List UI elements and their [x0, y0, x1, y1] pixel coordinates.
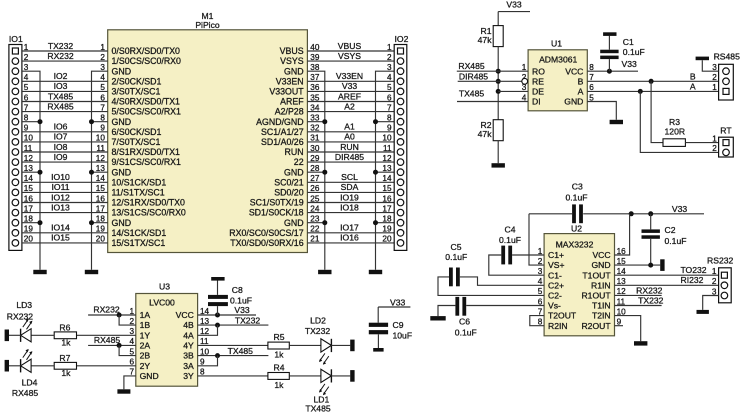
svg-text:DIR485: DIR485 — [335, 152, 364, 162]
svg-text:1k: 1k — [61, 368, 71, 378]
svg-text:GND: GND — [112, 218, 132, 228]
ground (side bar) — [350, 370, 354, 382]
svg-text:47k: 47k — [478, 129, 493, 139]
wire R3 to RT pin1 — [685, 142, 718, 144]
svg-text:IO18: IO18 — [340, 202, 359, 212]
svg-text:SCL: SCL — [341, 172, 358, 182]
svg-text:U1: U1 — [551, 38, 562, 48]
svg-text:IO14: IO14 — [51, 223, 70, 233]
LED LD4 — [9, 349, 39, 398]
svg-text:TX485: TX485 — [305, 403, 331, 413]
svg-text:R2IN: R2IN — [548, 321, 568, 331]
wire net IO7 — [22, 132, 108, 142]
wire net IO12 — [22, 192, 108, 202]
wire net RX232 — [22, 51, 108, 61]
svg-text:VBUS: VBUS — [338, 41, 362, 51]
svg-text:22: 22 — [294, 157, 304, 167]
wire net IO11 — [22, 182, 108, 192]
svg-text:2: 2 — [712, 144, 717, 153]
wire net A2 — [307, 101, 394, 111]
svg-text:VSYS: VSYS — [338, 51, 361, 61]
M1 right pin labels — [229, 46, 304, 248]
M1 left pin labels — [112, 46, 186, 248]
svg-text:13/S1CS/SC0/RX0: 13/S1CS/SC0/RX0 — [112, 208, 186, 218]
svg-text:18: 18 — [382, 215, 392, 224]
IO2 pin numbers — [382, 43, 392, 244]
wire net IO10 — [22, 172, 108, 182]
svg-text:AREF: AREF — [338, 91, 361, 101]
ground — [610, 120, 623, 124]
ground (flipped) — [696, 57, 709, 61]
wire net TO232 — [615, 265, 719, 275]
wire R1 to nets — [497, 47, 499, 120]
wire net IO6 — [22, 122, 108, 132]
svg-text:AGND/GND: AGND/GND — [256, 117, 303, 127]
svg-text:10: 10 — [382, 134, 392, 143]
wire net A — [587, 82, 718, 94]
LED LD3 — [7, 300, 33, 342]
capacitor C4 — [489, 225, 544, 276]
resistor R3 — [663, 117, 685, 147]
svg-text:VSYS: VSYS — [280, 56, 304, 66]
wire R4 to LD1 — [289, 375, 321, 377]
chip U3 LVC00 body — [136, 282, 198, 387]
svg-text:11: 11 — [383, 144, 392, 153]
svg-text:9: 9 — [387, 124, 392, 133]
svg-text:1Y: 1Y — [140, 330, 151, 340]
wire net TX232 — [22, 41, 108, 51]
svg-text:7/S0TX/SC1: 7/S0TX/SC1 — [112, 137, 161, 147]
wire U3 GND to ground — [124, 376, 136, 389]
svg-text:5/S0CS/SC0/RX1: 5/S0CS/SC0/RX1 — [112, 107, 182, 117]
svg-text:C1: C1 — [623, 37, 634, 47]
svg-text:11/S1TX/SC1: 11/S1TX/SC1 — [112, 188, 165, 198]
svg-text:RI232: RI232 — [681, 275, 704, 285]
node DE junction — [496, 89, 501, 94]
svg-text:15/S1TX/SC1: 15/S1TX/SC1 — [112, 238, 166, 248]
svg-text:15: 15 — [382, 184, 392, 193]
wire R2 to ground — [497, 141, 499, 164]
svg-text:RE: RE — [532, 76, 544, 86]
wire net RX485 (U3) — [88, 335, 136, 356]
svg-text:R6: R6 — [59, 323, 70, 333]
resistor R7 — [54, 353, 76, 378]
svg-text:LD2: LD2 — [310, 315, 326, 325]
svg-text:V33: V33 — [342, 81, 358, 91]
svg-text:3A: 3A — [183, 361, 194, 371]
svg-text:2: 2 — [712, 73, 717, 82]
svg-text:RO: RO — [532, 66, 545, 76]
svg-text:TX232: TX232 — [48, 41, 74, 51]
capacitor C9 — [369, 320, 412, 348]
svg-text:TO232: TO232 — [680, 265, 706, 275]
node R1/RO junction — [496, 69, 501, 74]
svg-text:V33: V33 — [390, 297, 406, 307]
svg-text:1A: 1A — [140, 310, 151, 320]
svg-text:0.1uF: 0.1uF — [623, 47, 645, 57]
svg-text:RX232: RX232 — [47, 51, 73, 61]
svg-text:20: 20 — [382, 235, 392, 244]
svg-text:GND: GND — [564, 97, 583, 107]
wire U3 VCC to V33 — [198, 305, 256, 317]
wire net IO19 — [307, 192, 394, 202]
svg-text:RS485: RS485 — [714, 52, 740, 62]
svg-text:10/S1CK/SD1: 10/S1CK/SD1 — [112, 177, 167, 187]
svg-text:C2: C2 — [665, 225, 676, 235]
wire net IO3 — [22, 81, 108, 91]
ground (side bar) — [350, 340, 354, 352]
svg-text:C3: C3 — [572, 182, 583, 192]
M1 right pin numbers — [310, 43, 320, 244]
svg-text:T2IN: T2IN — [592, 311, 611, 321]
svg-text:U2: U2 — [571, 224, 582, 234]
wire net TX232 (U2) — [615, 296, 664, 306]
wire R6 to LD3 — [31, 334, 54, 336]
wire net TX485 (U3) — [198, 346, 269, 366]
svg-text:1: 1 — [712, 267, 717, 276]
svg-text:PiPico: PiPico — [195, 20, 220, 30]
svg-text:12: 12 — [382, 154, 392, 163]
svg-text:R4: R4 — [274, 362, 285, 372]
wire U3 1Y — [77, 334, 136, 336]
svg-text:AREF: AREF — [280, 97, 304, 107]
svg-text:1k: 1k — [61, 338, 71, 348]
svg-text:IO1: IO1 — [9, 34, 23, 44]
wire net TX485 — [457, 89, 528, 102]
svg-text:7: 7 — [387, 103, 392, 112]
power V33 (C9) — [378, 297, 410, 322]
svg-text:RX232: RX232 — [7, 312, 33, 322]
svg-text:LD4: LD4 — [22, 378, 38, 388]
wire net AREF — [307, 91, 394, 101]
svg-text:A: A — [690, 82, 696, 92]
svg-text:SD0/20: SD0/20 — [274, 188, 303, 198]
svg-text:C1+: C1+ — [548, 250, 564, 260]
svg-text:VBUS: VBUS — [280, 46, 304, 56]
wire net RI232 — [615, 275, 719, 285]
svg-text:U3: U3 — [159, 282, 170, 292]
resistor R1 — [478, 26, 504, 47]
connector RT — [719, 126, 734, 157]
svg-text:MAX3232: MAX3232 — [556, 240, 594, 250]
svg-text:R1OUT: R1OUT — [581, 291, 611, 301]
op-amp U1 ADM3061 body — [528, 38, 587, 111]
wire U2 VCC to V33 — [615, 214, 630, 255]
svg-text:RX232: RX232 — [636, 286, 662, 296]
svg-text:IO9: IO9 — [54, 152, 68, 162]
svg-text:TX0/SD0/S0RX/16: TX0/SD0/S0RX/16 — [230, 238, 303, 248]
svg-text:Vs-: Vs- — [548, 301, 561, 311]
svg-text:2Y: 2Y — [140, 361, 151, 371]
connector RS232 — [707, 256, 733, 303]
ground — [697, 310, 709, 314]
RS485 pin3 wire to ground — [702, 60, 718, 71]
wire net IO9 — [22, 152, 108, 162]
ground rail M1 GND pins 3/8/13/18 — [89, 71, 108, 270]
svg-text:LD3: LD3 — [16, 300, 32, 310]
svg-text:RT: RT — [720, 126, 732, 136]
svg-text:A1: A1 — [344, 122, 355, 132]
wire net IO16 — [307, 233, 394, 243]
svg-text:120R: 120R — [665, 126, 686, 136]
svg-text:14/S1CK/SD1: 14/S1CK/SD1 — [112, 228, 167, 238]
svg-text:GND: GND — [112, 117, 132, 127]
svg-text:IO7: IO7 — [54, 132, 68, 142]
ground — [373, 348, 383, 352]
svg-text:IO15: IO15 — [51, 233, 70, 243]
svg-text:4/S0RX/SD0/TX1: 4/S0RX/SD0/TX1 — [112, 97, 181, 107]
svg-text:RUN: RUN — [340, 142, 359, 152]
wire VCC to V33 — [587, 69, 638, 74]
svg-text:RX485: RX485 — [458, 61, 484, 71]
svg-text:SDA: SDA — [341, 182, 359, 192]
wire B to R3 — [651, 81, 663, 142]
svg-text:1k: 1k — [274, 380, 284, 390]
svg-text:GND: GND — [112, 66, 132, 76]
wire net IO15 — [22, 233, 108, 243]
svg-text:V33EN: V33EN — [276, 76, 304, 86]
svg-text:3Y: 3Y — [183, 371, 194, 381]
wire net SDA — [307, 182, 394, 192]
svg-text:RS232: RS232 — [707, 256, 733, 266]
svg-text:B: B — [690, 72, 696, 82]
wire R5 to LD2 — [289, 344, 321, 346]
svg-text:TX485: TX485 — [228, 346, 254, 356]
svg-text:0.1uF: 0.1uF — [445, 252, 467, 262]
IO1 pin numbers — [24, 43, 34, 244]
wire net A1 — [307, 122, 394, 132]
svg-text:3/S0TX/SC1: 3/S0TX/SC1 — [112, 87, 161, 97]
svg-text:4A: 4A — [183, 330, 194, 340]
ground (flipped, above C8) — [211, 277, 224, 281]
svg-text:R5: R5 — [274, 332, 285, 342]
resistor R6 — [54, 323, 76, 348]
wire net TX485 — [22, 91, 108, 101]
wire U3 2Y — [77, 365, 136, 367]
svg-text:SC1/A1/27: SC1/A1/27 — [261, 127, 304, 137]
svg-text:3B: 3B — [183, 351, 194, 361]
svg-text:B: B — [578, 76, 584, 86]
svg-text:1: 1 — [712, 83, 717, 92]
svg-text:0.1uF: 0.1uF — [499, 235, 521, 245]
svg-text:2B: 2B — [140, 351, 151, 361]
connector IO1 — [9, 34, 23, 250]
svg-text:C2+: C2+ — [548, 280, 564, 290]
svg-text:2/S0CK/SD1: 2/S0CK/SD1 — [112, 76, 162, 86]
ground — [117, 389, 130, 393]
svg-text:8: 8 — [387, 114, 392, 123]
svg-text:IO11: IO11 — [52, 182, 70, 192]
svg-text:T1IN: T1IN — [592, 301, 611, 311]
wire net RX232 (U3) — [88, 305, 136, 326]
svg-text:VS+: VS+ — [548, 260, 564, 270]
svg-text:GND: GND — [140, 371, 159, 381]
ground (flipped, above C1) — [603, 32, 616, 36]
capacitor C2 — [642, 214, 687, 265]
svg-text:IO19: IO19 — [340, 192, 359, 202]
wire net IO2 — [22, 71, 108, 81]
wire net B — [587, 72, 718, 84]
svg-text:RX0/SC0/S0CS/17: RX0/SC0/S0CS/17 — [229, 228, 303, 238]
ground — [85, 270, 98, 274]
svg-text:19: 19 — [382, 225, 392, 234]
svg-text:DI: DI — [532, 97, 541, 107]
chip M1 PiPico — [108, 11, 308, 253]
ground — [369, 270, 382, 274]
wire U2 GND — [615, 263, 661, 268]
svg-text:IO16: IO16 — [340, 233, 359, 243]
wire U2 pins 7-8 tie — [530, 316, 544, 326]
wire U2 R2OUT stub — [615, 325, 624, 327]
svg-text:IO13: IO13 — [51, 202, 70, 212]
svg-text:VCC: VCC — [176, 310, 194, 320]
svg-text:T1OUT: T1OUT — [582, 270, 611, 280]
wire net V33EN — [307, 71, 394, 81]
svg-text:IO3: IO3 — [54, 81, 68, 91]
ground rail M1 GND pins 38/33/28/23 — [307, 71, 327, 270]
svg-text:1k: 1k — [274, 350, 284, 360]
wire net RX485 — [22, 101, 108, 111]
LED LD2 — [305, 315, 350, 364]
svg-text:C8: C8 — [232, 285, 243, 295]
svg-text:0.1uF: 0.1uF — [665, 236, 687, 246]
M1 left pin numbers — [96, 43, 106, 244]
svg-text:TX232: TX232 — [235, 315, 261, 325]
wire DE — [498, 90, 528, 92]
svg-text:IO17: IO17 — [340, 223, 359, 233]
svg-text:16: 16 — [382, 194, 392, 203]
svg-text:A: A — [578, 87, 584, 97]
svg-text:0.1uF: 0.1uF — [230, 296, 252, 306]
svg-text:V33: V33 — [234, 305, 250, 315]
wire U3 4Y — [198, 344, 268, 346]
capacitor C8 — [208, 281, 252, 316]
svg-text:4Y: 4Y — [183, 341, 194, 351]
connector RS485 — [714, 52, 740, 100]
svg-text:GND: GND — [284, 167, 304, 177]
svg-text:GND: GND — [284, 66, 304, 76]
svg-text:9/S1CS/SC0/RX1: 9/S1CS/SC0/RX1 — [112, 157, 182, 167]
wire net V33 (U2) — [583, 204, 704, 216]
svg-text:14: 14 — [382, 174, 392, 183]
svg-text:IO2: IO2 — [395, 34, 409, 44]
svg-text:RX485: RX485 — [12, 388, 38, 398]
svg-text:RUN: RUN — [285, 147, 304, 157]
svg-text:VCC: VCC — [565, 66, 583, 76]
svg-text:1/S0CS/SC0/RX0: 1/S0CS/SC0/RX0 — [112, 56, 182, 66]
capacitor C6 — [438, 297, 544, 338]
ground — [634, 341, 647, 345]
svg-text:R2OUT: R2OUT — [581, 321, 611, 331]
wire net IO18 — [307, 202, 394, 212]
wire net A0 — [307, 132, 394, 142]
svg-text:1: 1 — [712, 134, 717, 143]
wire A to RT pin2 — [640, 91, 718, 152]
svg-text:R1IN: R1IN — [591, 280, 611, 290]
svg-text:TX485: TX485 — [459, 89, 485, 99]
capacitor C1 — [600, 36, 645, 71]
wire net TX232 (U3) — [198, 315, 269, 335]
power V33 (R1 top) — [498, 0, 530, 26]
svg-text:C5: C5 — [451, 242, 462, 252]
svg-text:8/S1RX/SD0/TX1: 8/S1RX/SD0/TX1 — [112, 147, 181, 157]
svg-text:A0: A0 — [344, 132, 355, 142]
RS232 pin3 wire to ground — [703, 296, 719, 310]
svg-text:1: 1 — [387, 43, 392, 52]
node RE junction — [496, 79, 501, 84]
wire net SCL — [307, 172, 394, 182]
capacitor C5 — [438, 242, 544, 295]
wire U3 3Y — [198, 375, 268, 377]
svg-text:17: 17 — [382, 204, 392, 213]
wire net VSYS — [307, 51, 394, 61]
resistor R5 — [268, 332, 289, 360]
svg-text:A2: A2 — [344, 101, 355, 111]
svg-text:C6: C6 — [459, 317, 470, 327]
svg-text:RX485: RX485 — [94, 335, 120, 345]
svg-text:4: 4 — [387, 73, 392, 82]
svg-text:IO2: IO2 — [54, 71, 68, 81]
svg-text:2: 2 — [387, 53, 392, 62]
resistor R2 — [478, 120, 504, 141]
ground (side bar) — [660, 259, 664, 271]
svg-text:TX232: TX232 — [305, 326, 331, 336]
svg-text:R7: R7 — [59, 353, 70, 363]
svg-text:V33: V33 — [622, 59, 638, 69]
svg-text:LVC00: LVC00 — [149, 298, 175, 308]
svg-text:T2OUT: T2OUT — [548, 311, 577, 321]
connector IO2 — [394, 34, 408, 250]
svg-text:IO8: IO8 — [54, 142, 68, 152]
RT pin numbers — [712, 134, 717, 153]
svg-text:47k: 47k — [478, 35, 493, 45]
wire net VBUS — [307, 41, 394, 51]
svg-text:1B: 1B — [140, 320, 151, 330]
svg-text:IO10: IO10 — [51, 172, 70, 182]
capacitor C3 — [529, 182, 587, 265]
svg-text:SD1/S0CK/18: SD1/S0CK/18 — [249, 208, 304, 218]
svg-text:RX485: RX485 — [47, 101, 73, 111]
svg-text:5: 5 — [387, 83, 392, 92]
RS485 pin numbers — [712, 63, 717, 92]
wire net DIR485 — [458, 71, 522, 81]
ground — [318, 270, 331, 274]
svg-text:6/S0CK/SD1: 6/S0CK/SD1 — [112, 127, 162, 137]
svg-text:IO6: IO6 — [54, 122, 68, 132]
svg-text:DE: DE — [532, 87, 544, 97]
RS232 pin numbers — [712, 267, 717, 296]
ground rail IO2 pins 3/8/13/18 — [373, 71, 394, 270]
svg-text:0.1uF: 0.1uF — [455, 328, 477, 338]
svg-text:2A: 2A — [140, 341, 151, 351]
ground — [430, 316, 445, 320]
U1 RE inversion bubble — [522, 78, 528, 84]
svg-text:C4: C4 — [505, 225, 516, 235]
svg-text:C2-: C2- — [548, 291, 562, 301]
svg-text:13: 13 — [382, 164, 392, 173]
svg-text:ADM3061: ADM3061 — [539, 54, 577, 64]
svg-text:3: 3 — [387, 63, 392, 72]
ground (side bar) — [5, 330, 9, 342]
svg-text:GND: GND — [591, 260, 610, 270]
wire net DIR485 — [307, 152, 394, 162]
wire U1 GND — [587, 102, 616, 120]
svg-text:V33OUT: V33OUT — [269, 87, 304, 97]
svg-text:R3: R3 — [669, 117, 680, 127]
svg-text:DIR485: DIR485 — [459, 71, 488, 81]
wire U2 T2IN to ground — [615, 316, 641, 342]
wire net V33 — [307, 81, 394, 91]
